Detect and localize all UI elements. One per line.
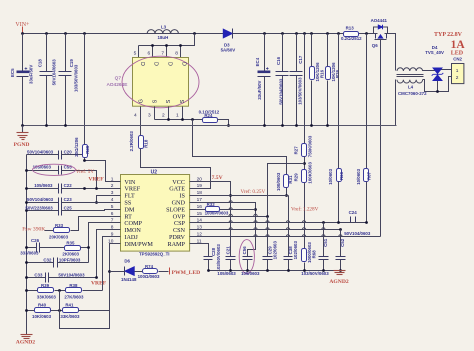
capacitor C38 102/0603	[284, 196, 299, 271]
resistor R16 10K/1206	[310, 34, 325, 126]
svg-text:105/0603: 105/0603	[217, 271, 236, 276]
svg-text:105/0603: 105/0603	[34, 183, 53, 188]
svg-text:4: 4	[134, 113, 137, 119]
wire R18 to GATE pin19	[141, 149, 211, 189]
svg-text:102/0603: 102/0603	[273, 241, 278, 260]
resistor R24 0.1R/2512	[199, 109, 230, 127]
capacitor C21 105/0603	[217, 246, 236, 276]
svg-text:TYP 22.8V: TYP 22.8V	[434, 32, 463, 38]
svg-text:C22: C22	[64, 183, 73, 188]
resistor R67 10/0603	[356, 34, 372, 223]
resistor R27 750K/0603	[293, 135, 312, 157]
capacitor C26 333/0603	[20, 238, 64, 256]
svg-text:R35: R35	[66, 240, 75, 245]
svg-text:100Ω/0603: 100Ω/0603	[138, 274, 160, 279]
svg-text:CN2: CN2	[453, 56, 462, 61]
svg-text:33uF/50V: 33uF/50V	[29, 65, 34, 84]
wire L4 top to CN2 pin1	[423, 70, 452, 71]
svg-text:20K/0603: 20K/0603	[49, 234, 69, 239]
svg-text:33K/0603: 33K/0603	[37, 294, 57, 299]
wire Q7 source pins to bus	[154, 107, 156, 120]
svg-text:S: S	[152, 99, 158, 103]
svg-text:Fsw 390K: Fsw 390K	[22, 227, 45, 233]
capacitor C29 102/0603	[263, 241, 278, 271]
svg-text:L4: L4	[408, 85, 414, 90]
wire Q6 source to L4	[388, 34, 396, 71]
svg-text:R41: R41	[65, 302, 74, 307]
wire R29 down to R68	[304, 183, 306, 249]
svg-text:C56: C56	[242, 246, 247, 255]
svg-text:2: 2	[456, 75, 459, 81]
wire RAMP pin11	[190, 244, 209, 257]
svg-text:RAMP: RAMP	[167, 241, 185, 248]
diode D3 5A/60V	[221, 29, 236, 53]
svg-text:2: 2	[162, 113, 165, 119]
capacitor C20 50V104/0603	[27, 150, 85, 160]
svg-text:D6: D6	[124, 259, 130, 264]
resistor R13 0.2R/2512	[341, 26, 362, 42]
resistor R26 10K/1206	[326, 34, 341, 126]
svg-text:CMC7060-272: CMC7060-272	[398, 91, 427, 96]
svg-text:PDRV: PDRV	[169, 234, 186, 241]
resistor R35 2K/0603	[62, 240, 88, 256]
svg-text:C17: C17	[298, 55, 303, 64]
svg-text:R66: R66	[339, 171, 344, 180]
wire VIN column to R30	[84, 34, 86, 145]
junction dots on top rail	[21, 32, 368, 35]
svg-text:10K/0603: 10K/0603	[32, 314, 52, 319]
capacitor C33 50V104/0603	[25, 272, 96, 282]
wire VCC pin20	[190, 182, 231, 257]
resistor R39 33K/0603	[25, 283, 65, 299]
svg-text:G: G	[138, 99, 144, 103]
svg-text:15: 15	[197, 211, 203, 217]
svg-text:10/0603: 10/0603	[356, 168, 361, 184]
resistor R29 100K/0603	[293, 162, 312, 184]
svg-text:D: D	[139, 62, 145, 66]
capacitor C18	[37, 34, 56, 126]
node VIN+	[15, 22, 30, 34]
svg-text:100K/0603: 100K/0603	[308, 162, 313, 184]
svg-text:C25: C25	[64, 206, 73, 211]
svg-text:R32: R32	[207, 202, 216, 207]
svg-text:50V/223/0603: 50V/223/0603	[25, 206, 53, 211]
node PWM_LED	[170, 268, 201, 277]
wire OVP pin15	[190, 216, 268, 218]
svg-text:105/0603: 105/0603	[241, 271, 260, 276]
wire PDRV pin12	[190, 236, 381, 238]
capacitor C56 105/0603	[239, 240, 260, 277]
transistor Q7 AO4264E	[107, 56, 199, 108]
svg-text:50V104/0603: 50V104/0603	[27, 150, 54, 155]
wire L4 bottom to CN2 pin2	[423, 77, 452, 92]
resistor R18 2.2R/0603	[129, 131, 148, 152]
resistor R41 33K/0603	[60, 302, 109, 318]
wire GND pin17	[190, 203, 256, 257]
resistor R38 27K/0603	[64, 283, 102, 299]
svg-text:2K/0603: 2K/0603	[62, 252, 79, 257]
svg-text:100/0603: 100/0603	[276, 172, 281, 191]
svg-text:Vref: 5V: Vref: 5V	[76, 168, 95, 175]
svg-text:R30: R30	[85, 145, 90, 154]
capacitor C52	[301, 230, 345, 277]
connector CN2	[434, 32, 465, 84]
wire CSN pin13	[190, 229, 341, 231]
wire SLOPE pin16 with resistor R32	[190, 209, 256, 211]
svg-text:AGND2: AGND2	[16, 339, 35, 345]
svg-text:C24: C24	[349, 210, 358, 215]
svg-text:R16: R16	[319, 69, 324, 78]
svg-text:18uH: 18uH	[158, 35, 169, 40]
svg-text:TVS_40V: TVS_40V	[425, 50, 444, 55]
svg-text:R27: R27	[293, 146, 298, 155]
wire IMON pin8 column	[97, 230, 121, 278]
svg-text:Q6: Q6	[372, 43, 378, 48]
capacitor EC5	[10, 34, 33, 126]
svg-text:10/0603: 10/0603	[328, 168, 333, 184]
wire R27 to R29 with OVP tap	[304, 157, 306, 170]
svg-text:1A: 1A	[451, 39, 466, 51]
wire OVP divider column from top rail	[304, 34, 306, 144]
svg-text:C18: C18	[37, 59, 42, 68]
svg-text:R39: R39	[41, 283, 50, 288]
wire R39 R40 divider link	[59, 291, 61, 311]
capacitor EC4	[255, 34, 270, 126]
svg-text:1: 1	[456, 68, 459, 74]
svg-text:Q7: Q7	[115, 76, 122, 82]
svg-text:33uF/50V: 33uF/50V	[257, 80, 262, 99]
wire COMP pin7 column	[89, 223, 121, 263]
svg-text:D: D	[153, 62, 159, 66]
diode D6 1N4148	[110, 259, 143, 283]
wire current sense R24 to R31	[193, 120, 287, 175]
svg-text:R13: R13	[346, 26, 355, 31]
wire DIM/PWM pin10 column	[110, 244, 121, 311]
svg-text:R74: R74	[145, 264, 154, 269]
svg-text:R24: R24	[204, 113, 213, 118]
svg-text:S: S	[180, 99, 186, 103]
capacitor C51	[319, 223, 329, 271]
svg-text:C33: C33	[34, 272, 43, 277]
svg-text:103/50V/0603: 103/50V/0603	[216, 244, 221, 272]
wire L3 node down to Q7 drain bus	[139, 34, 195, 46]
wire IS pin18	[190, 195, 289, 197]
svg-text:8: 8	[175, 51, 178, 57]
diode D4 TVS_40V	[425, 45, 444, 93]
capacitor C16	[276, 34, 289, 126]
svg-text:1N4148: 1N4148	[121, 277, 137, 282]
wire left AGND bus	[26, 155, 28, 335]
svg-text:50V104/0603: 50V104/0603	[344, 231, 371, 236]
svg-text:20Ω/1206: 20Ω/1206	[74, 137, 79, 157]
svg-text:C52: C52	[340, 238, 345, 247]
capacitor C17	[290, 34, 303, 126]
svg-text:7.5V: 7.5V	[212, 175, 223, 181]
svg-text:Vref: 1.228V: Vref: 1.228V	[291, 206, 319, 213]
svg-text:1000P/0603: 1000P/0603	[205, 210, 229, 215]
svg-text:C20: C20	[64, 150, 73, 155]
resistor R31 100/0603	[276, 172, 293, 197]
svg-text:C51: C51	[323, 238, 328, 247]
svg-text:VREF: VREF	[88, 176, 104, 182]
svg-text:S: S	[166, 99, 172, 103]
svg-text:6: 6	[148, 51, 151, 57]
svg-text:1: 1	[176, 113, 179, 119]
wire bottom return loop	[60, 311, 110, 329]
svg-text:EC5: EC5	[10, 68, 15, 77]
svg-text:7: 7	[161, 51, 164, 57]
svg-text:C32: C32	[43, 257, 52, 262]
svg-text:R26: R26	[335, 69, 340, 78]
wire rail R13 to Q6	[359, 33, 374, 35]
wire crossing hops	[229, 201, 342, 237]
svg-text:33K/0603: 33K/0603	[60, 314, 80, 319]
wire PGND riser to L4 bottom	[395, 80, 397, 126]
capacitor C28 103/50V/0603	[204, 244, 221, 272]
svg-text:50V104/0603: 50V104/0603	[27, 197, 54, 202]
wire Q7 drain pins	[138, 46, 140, 58]
svg-text:10PF/0603: 10PF/0603	[59, 257, 81, 262]
capacitor C23 50V104/0603	[25, 197, 120, 207]
ground AGND2 right	[334, 271, 346, 275]
svg-text:EC4: EC4	[255, 57, 260, 66]
svg-text:102/0603: 102/0603	[293, 241, 298, 260]
wire top rail VIN+	[23, 33, 224, 35]
svg-text:3: 3	[148, 113, 151, 119]
svg-text:C21: C21	[225, 246, 230, 255]
inductor L3 18uH	[147, 24, 178, 40]
resistor R33 20K/0603 RT	[22, 217, 120, 240]
wire IADJ pin9 column	[103, 237, 121, 291]
capacitor C24 50V104/0603	[344, 210, 371, 236]
svg-text:TPS92692Q_TI: TPS92692Q_TI	[139, 251, 170, 256]
svg-text:C16: C16	[276, 56, 281, 65]
wire GATE pin19 stub	[190, 188, 197, 190]
capacitor C55 105/0603	[25, 164, 104, 188]
wire CSP pin14	[190, 222, 367, 224]
wire R30 to VIN pin1	[85, 158, 121, 182]
svg-text:0.2Ω/2512: 0.2Ω/2512	[341, 36, 362, 41]
op-amp U2 TPS92692Q_TI controller	[108, 169, 202, 256]
svg-text:AGND2: AGND2	[329, 279, 348, 285]
svg-text:750K/0603: 750K/0603	[308, 135, 313, 157]
ground symbol PGND	[17, 126, 29, 140]
svg-text:PGND: PGND	[14, 142, 30, 148]
svg-text:27K/0603: 27K/0603	[64, 294, 84, 299]
svg-text:333/0603: 333/0603	[20, 251, 39, 256]
svg-text:19: 19	[197, 183, 203, 189]
transistor Q6 AO4441	[371, 18, 388, 48]
wire Q6 gate column to PDRV	[380, 43, 382, 237]
wire Q7 gate down	[140, 107, 142, 136]
svg-text:DIM/PWM: DIM/PWM	[124, 241, 153, 248]
svg-text:50V104/0603: 50V104/0603	[52, 59, 57, 86]
svg-text:AO4264E: AO4264E	[107, 82, 128, 88]
svg-text:50V104/0603: 50V104/0603	[58, 272, 85, 277]
svg-text:AO4441: AO4441	[371, 18, 388, 23]
svg-text:6: 6	[111, 211, 114, 217]
svg-text:103/50V/0603: 103/50V/0603	[301, 271, 329, 276]
svg-text:103/50V/0603: 103/50V/0603	[73, 64, 78, 92]
wire rail after D3	[233, 33, 344, 35]
svg-text:5: 5	[134, 51, 137, 57]
svg-text:50V104/0603: 50V104/0603	[278, 78, 283, 105]
capacitor C32 10PF/0603	[25, 257, 88, 267]
svg-text:5A/60V: 5A/60V	[221, 47, 236, 52]
svg-text:Vref: 0.25V: Vref: 0.25V	[241, 188, 266, 195]
svg-text:R40: R40	[38, 302, 47, 307]
svg-text:103/50V/0603: 103/50V/0603	[298, 77, 303, 105]
svg-text:R31: R31	[288, 175, 293, 184]
resistor R68 1000P/0603	[302, 242, 317, 271]
svg-text:R68: R68	[311, 250, 316, 259]
resistor R30 20R/1206	[74, 137, 90, 158]
capacitor C25 50V/223/0603	[25, 206, 120, 216]
svg-text:R29: R29	[293, 173, 298, 182]
resistor R66 10/0603	[328, 34, 344, 223]
resistor R40 10K/0603	[25, 302, 62, 318]
ground AGND2 left	[21, 335, 33, 339]
svg-text:2.2R/0603: 2.2R/0603	[129, 131, 134, 152]
inductor L4 CMC7060-272 common mode choke	[397, 68, 428, 96]
svg-text:VREF: VREF	[91, 281, 107, 287]
svg-text:R67: R67	[366, 171, 371, 180]
resistor R74 100R/0603	[138, 264, 169, 279]
svg-text:PWM_LED: PWM_LED	[172, 270, 201, 276]
svg-text:D: D	[167, 62, 173, 66]
svg-text:R38: R38	[69, 283, 78, 288]
svg-text:C23: C23	[64, 197, 73, 202]
ground PGND rail	[23, 125, 397, 127]
wire FLT pin3 to SS	[97, 196, 121, 203]
capacitor C19	[59, 34, 79, 126]
svg-text:D: D	[181, 62, 187, 66]
svg-text:C26: C26	[31, 238, 40, 243]
wire AGND bus bottom	[209, 270, 340, 272]
svg-text:R33: R33	[55, 223, 64, 228]
svg-text:R18: R18	[143, 139, 148, 148]
capacitor C22 105/0603	[25, 183, 120, 194]
svg-text:L3: L3	[161, 24, 167, 29]
